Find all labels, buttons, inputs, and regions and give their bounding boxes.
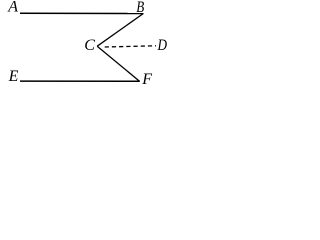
svg-text:E: E — [8, 68, 19, 85]
svg-text:F: F — [141, 71, 152, 88]
line EF (bottom horizontal line) — [20, 80, 140, 82]
svg-text:D: D — [157, 37, 168, 54]
svg-text:A: A — [7, 0, 18, 16]
svg-text:B: B — [136, 0, 144, 16]
wire: segment CF (vertex C down to F) — [97, 46, 139, 81]
dashed ray CD — [105, 46, 156, 47]
line AB (top horizontal line) — [20, 12, 144, 14]
svg-text:C: C — [84, 37, 95, 54]
wire: segment BC (B down to vertex C) — [97, 14, 143, 47]
